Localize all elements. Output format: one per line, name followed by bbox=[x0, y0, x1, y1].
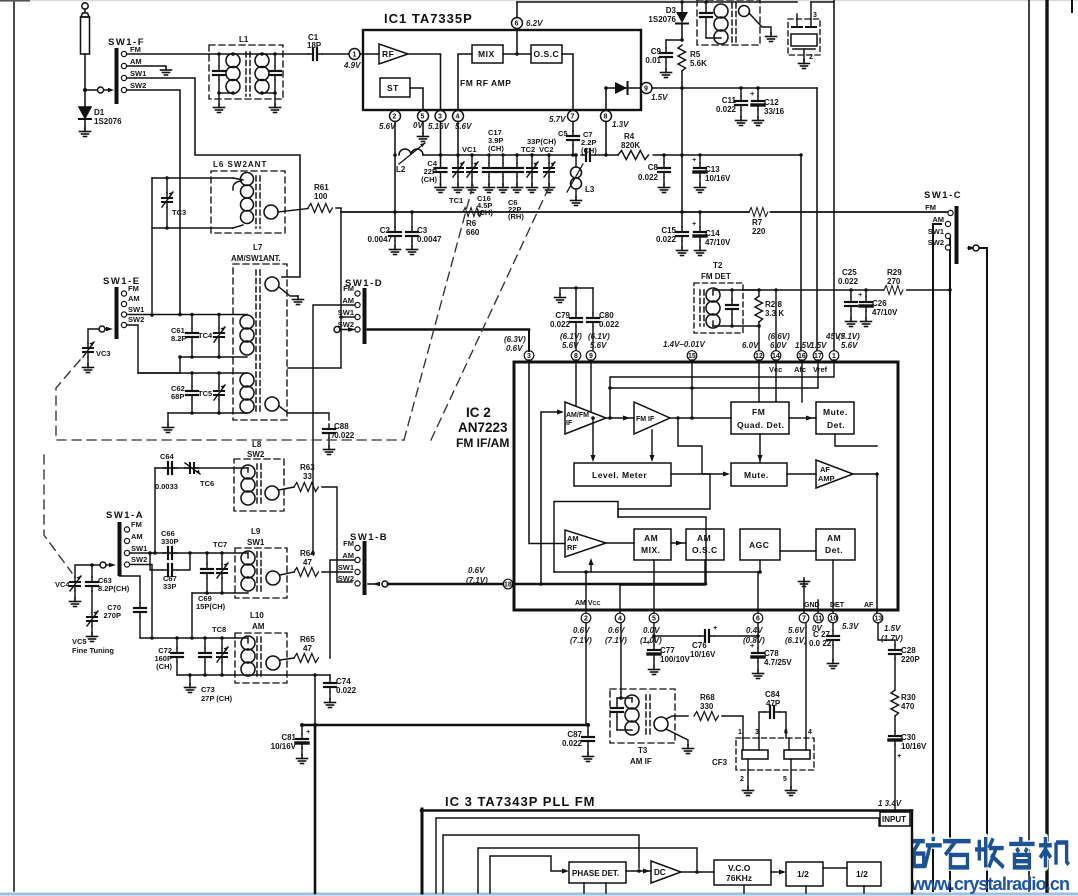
coil T3 primary bbox=[631, 698, 633, 702]
svg-text:14: 14 bbox=[772, 353, 780, 360]
coil L7 primary lower bbox=[240, 373, 254, 413]
wire AM RF to AM MIX bbox=[606, 542, 634, 544]
coil T2 bbox=[712, 290, 714, 295]
wire pin1 to RF bbox=[360, 53, 379, 55]
crystal filter (top right) bbox=[788, 19, 820, 55]
amp FM IF bbox=[634, 402, 670, 434]
svg-text:SW1: SW1 bbox=[131, 544, 147, 553]
capacitor C80 0.022 bbox=[592, 288, 594, 313]
capacitor C7 2.2P(CH) bbox=[581, 149, 595, 161]
svg-text:1 3.4V: 1 3.4V bbox=[878, 799, 902, 808]
wire R61 to rail bbox=[288, 208, 341, 368]
wire vertical to IC2 pin17 bbox=[816, 88, 818, 350]
svg-text:AM: AM bbox=[252, 622, 265, 631]
wire pin1 rail bbox=[610, 360, 834, 418]
svg-text:RF: RF bbox=[567, 543, 577, 552]
svg-text:(1.7V): (1.7V) bbox=[881, 634, 903, 643]
svg-text:1/2: 1/2 bbox=[856, 869, 868, 879]
svg-text:L10: L10 bbox=[250, 611, 264, 620]
svg-text:1.5V: 1.5V bbox=[810, 341, 827, 350]
svg-text:VC1: VC1 bbox=[462, 145, 477, 154]
svg-text:(RH): (RH) bbox=[508, 212, 524, 221]
svg-text:Det.: Det. bbox=[825, 545, 843, 555]
capacitor C11 0.022 bbox=[740, 88, 742, 96]
svg-text:VC4: VC4 bbox=[55, 580, 70, 589]
capacitor C6 22P(RH) bbox=[516, 155, 518, 163]
wiper SW1-A bbox=[100, 562, 106, 568]
svg-text:FM: FM bbox=[131, 520, 142, 529]
pin 17 circle bbox=[813, 351, 823, 361]
svg-text:C77: C77 bbox=[660, 646, 675, 655]
svg-text:Mute.: Mute. bbox=[744, 470, 769, 480]
capacitor C63 8.2P(CH) bbox=[91, 565, 93, 577]
wire OSC to pin7 bbox=[562, 54, 573, 110]
wire IC3 nested feedback lines bbox=[436, 818, 879, 893]
svg-text:47/10V: 47/10V bbox=[872, 308, 898, 317]
trimmer TC8 bbox=[221, 638, 223, 648]
pin 6 of IC1 bbox=[516, 29, 518, 55]
wiper SW1-C bbox=[968, 246, 976, 250]
coil L9 bbox=[247, 553, 249, 558]
svg-text:TC8: TC8 bbox=[212, 625, 226, 634]
svg-text:5.6V: 5.6V bbox=[562, 341, 579, 350]
diode D3 1S2076 bbox=[680, 0, 684, 4]
wire SW1 band down-left web bbox=[127, 78, 300, 277]
svg-text:10/16V: 10/16V bbox=[901, 742, 927, 751]
wire AM/FM IF to FM IF bbox=[606, 417, 634, 419]
wire AGC to AM Det bbox=[780, 550, 816, 552]
resistor R30 470 bbox=[891, 690, 899, 716]
pin 9 of IC1 bbox=[641, 83, 652, 94]
trimmer TC4 bbox=[218, 315, 220, 329]
svg-text:DC: DC bbox=[654, 868, 666, 877]
svg-text:SW1-B: SW1-B bbox=[350, 532, 388, 543]
wire L9 bottom row bbox=[192, 592, 248, 594]
svg-text:SW2: SW2 bbox=[928, 238, 944, 247]
svg-text:1.4V–0.01V: 1.4V–0.01V bbox=[663, 340, 705, 349]
pin 14 circle bbox=[771, 351, 781, 361]
svg-text:0.0047: 0.0047 bbox=[417, 235, 442, 244]
svg-text:330: 330 bbox=[700, 702, 714, 711]
block Level Meter bbox=[574, 463, 671, 486]
svg-text:(CH): (CH) bbox=[488, 144, 504, 153]
pin 5 circle bbox=[649, 613, 659, 623]
svg-text:IF: IF bbox=[566, 420, 573, 427]
trimmer TC6 bbox=[185, 463, 200, 474]
svg-text:AM: AM bbox=[827, 533, 841, 543]
svg-text:TC1: TC1 bbox=[449, 196, 463, 205]
svg-text:AF: AF bbox=[864, 602, 874, 609]
svg-text:FM: FM bbox=[130, 45, 141, 54]
core L10 bbox=[256, 637, 258, 679]
ground on AM stub bbox=[161, 67, 172, 76]
capacitor T3 bbox=[616, 698, 618, 703]
svg-text:+: + bbox=[692, 219, 697, 228]
pin 3 circle bbox=[524, 351, 534, 361]
wire RF out to pin3 bbox=[408, 54, 441, 110]
capacitor C16 4.5P(CH) bbox=[488, 155, 490, 163]
svg-text:SW1: SW1 bbox=[338, 563, 354, 572]
svg-text:270: 270 bbox=[887, 277, 901, 286]
block FM Quad Det bbox=[731, 402, 789, 434]
svg-text:660: 660 bbox=[466, 228, 480, 237]
wire pin9 output bbox=[652, 87, 817, 89]
svg-text:+: + bbox=[897, 751, 902, 760]
block Mute bbox=[731, 463, 787, 486]
svg-text:C88: C88 bbox=[334, 422, 349, 431]
pin 1 circle bbox=[829, 351, 839, 361]
svg-text:3: 3 bbox=[813, 12, 817, 19]
svg-text:270P: 270P bbox=[103, 611, 121, 620]
wire ST to pin5 bbox=[410, 88, 423, 110]
pin 10 circle bbox=[828, 613, 838, 623]
wire SW1 row of SW1-A bbox=[130, 552, 248, 554]
wire tuning rail y155 bbox=[423, 154, 573, 156]
capacitor C88 0.022 bbox=[323, 424, 335, 438]
diode internal to pin9 bbox=[604, 86, 608, 90]
wire pin10 up to AM Det bbox=[832, 560, 834, 614]
svg-text:0.4V: 0.4V bbox=[746, 626, 763, 635]
svg-text:Afc: Afc bbox=[794, 365, 806, 374]
svg-text:D1: D1 bbox=[94, 108, 105, 117]
capacitor C15 0.022 bbox=[676, 227, 688, 241]
svg-text:AM/FM: AM/FM bbox=[566, 412, 589, 419]
svg-text:0.022: 0.022 bbox=[599, 320, 620, 329]
svg-text:RF: RF bbox=[382, 49, 394, 59]
svg-text:Fine Tuning: Fine Tuning bbox=[72, 646, 114, 655]
transformer L1 bbox=[209, 45, 283, 99]
pin 8 of IC1 bbox=[601, 111, 612, 122]
svg-text:L3: L3 bbox=[585, 185, 595, 194]
capacitor C5 33P(CH) on pin7 bbox=[572, 122, 574, 132]
svg-text:15: 15 bbox=[688, 353, 696, 360]
svg-text:4.9V: 4.9V bbox=[343, 61, 361, 70]
svg-text:+: + bbox=[306, 727, 311, 736]
svg-text:(6.1V): (6.1V) bbox=[785, 636, 807, 645]
pin 1 of IC1 bbox=[349, 49, 360, 60]
coil L1 primary bbox=[232, 54, 234, 55]
block VCO 76KHz bbox=[714, 860, 771, 885]
svg-text:INPUT: INPUT bbox=[882, 815, 906, 824]
inductor L2 (variable) bbox=[399, 149, 423, 155]
capacitor C69 15P(CH) bbox=[206, 553, 208, 564]
svg-text:AMP: AMP bbox=[818, 474, 835, 483]
svg-text:820K: 820K bbox=[621, 141, 640, 150]
right vertical line x1029 bbox=[1028, 0, 1030, 891]
svg-text:VC5: VC5 bbox=[72, 637, 87, 646]
svg-text:R68: R68 bbox=[700, 693, 715, 702]
svg-text:O.S.C: O.S.C bbox=[534, 49, 560, 59]
wire R68 to CF3 bbox=[722, 716, 743, 738]
svg-text:C2: C2 bbox=[380, 226, 391, 235]
wire SW2 drop from SW1-E bbox=[127, 325, 180, 373]
gang dashed linkage lines bbox=[44, 185, 550, 573]
svg-text:(6.1V): (6.1V) bbox=[560, 332, 582, 341]
capacitor C12 33/16 bbox=[757, 88, 759, 96]
capacitor C9 0.01 bbox=[665, 40, 667, 48]
svg-text:17: 17 bbox=[814, 353, 822, 360]
svg-text:IC 2: IC 2 bbox=[466, 405, 491, 420]
wiper SW1-E bbox=[99, 326, 105, 332]
svg-text:L7: L7 bbox=[253, 243, 263, 252]
svg-text:(5.1V): (5.1V) bbox=[838, 332, 860, 341]
block PHASE DET bbox=[569, 862, 626, 883]
block AM OSC bbox=[686, 529, 724, 560]
wire C64 row bbox=[155, 467, 248, 469]
svg-text:SW1: SW1 bbox=[128, 305, 144, 314]
svg-text:0.0047: 0.0047 bbox=[368, 235, 393, 244]
trimmer TC3 bbox=[166, 178, 168, 193]
coil T3 secondary loop bbox=[654, 717, 668, 731]
svg-text:0.022: 0.022 bbox=[562, 739, 583, 748]
amp AM RF bbox=[565, 530, 606, 557]
svg-text:18: 18 bbox=[504, 582, 512, 589]
svg-text:TC5: TC5 bbox=[198, 389, 212, 398]
pin 8 circle bbox=[571, 351, 581, 361]
ground under D1 bbox=[80, 128, 91, 137]
wire L1 bottoms bbox=[219, 92, 233, 94]
resistor R64 47 bbox=[294, 568, 318, 577]
svg-text:C79: C79 bbox=[555, 311, 570, 320]
wire pin14 stub bbox=[775, 360, 777, 402]
trimmer VC5 fine tuning bbox=[87, 611, 98, 626]
resistor R61 100 bbox=[308, 204, 332, 213]
svg-text:0.01: 0.01 bbox=[645, 56, 661, 65]
svg-text:33P: 33P bbox=[163, 582, 176, 591]
svg-text:FM: FM bbox=[752, 407, 765, 417]
svg-text:TC7: TC7 bbox=[213, 540, 227, 549]
wiper SW1-B thick wire to pin18 bbox=[382, 581, 388, 587]
svg-text:C14: C14 bbox=[705, 229, 720, 238]
svg-text:3: 3 bbox=[438, 114, 442, 121]
svg-text:10/16V: 10/16V bbox=[705, 174, 731, 183]
svg-text:6.2V: 6.2V bbox=[526, 19, 543, 28]
diode D1 1S2076 bbox=[79, 90, 91, 128]
svg-text:Quad. Det.: Quad. Det. bbox=[737, 420, 785, 430]
ground L10 bottom bbox=[189, 675, 191, 684]
svg-text:9: 9 bbox=[644, 86, 648, 93]
trimmer TC5 bbox=[218, 373, 220, 386]
pin 18 circle bbox=[503, 579, 513, 589]
wire vertical to IC2 pin1 bbox=[833, 0, 835, 350]
svg-text:1: 1 bbox=[832, 353, 836, 360]
wire pin2 up bbox=[585, 572, 587, 614]
coil L10 bbox=[247, 638, 249, 643]
svg-text:10: 10 bbox=[830, 616, 838, 623]
svg-text:1: 1 bbox=[353, 52, 357, 59]
block divider 1/2 bbox=[786, 862, 823, 886]
svg-text:100/10V: 100/10V bbox=[660, 655, 690, 664]
svg-text:VC2: VC2 bbox=[539, 145, 554, 154]
svg-text:L8: L8 bbox=[252, 440, 262, 449]
svg-text:2: 2 bbox=[393, 114, 397, 121]
svg-text:2: 2 bbox=[740, 776, 744, 783]
capacitor C67 33P parallel bbox=[150, 553, 163, 570]
capacitor C3 0.0047 bbox=[411, 212, 413, 227]
svg-text:76KHz: 76KHz bbox=[726, 873, 752, 883]
svg-text:12: 12 bbox=[755, 353, 763, 360]
svg-text:4: 4 bbox=[456, 114, 460, 121]
svg-text:DET: DET bbox=[830, 602, 845, 609]
svg-text:13: 13 bbox=[875, 616, 883, 623]
svg-text:4.7/25V: 4.7/25V bbox=[764, 658, 792, 667]
svg-text:3.3 K: 3.3 K bbox=[765, 309, 784, 318]
svg-text:1.3V: 1.3V bbox=[612, 120, 629, 129]
svg-text:(7.1V): (7.1V) bbox=[605, 636, 627, 645]
svg-text:6: 6 bbox=[784, 729, 788, 736]
coil L7 primary upper bbox=[240, 315, 254, 355]
node dots L1 top bbox=[217, 52, 221, 56]
pin 3 of IC1 bbox=[435, 111, 446, 122]
resistor R5 5.6K bbox=[678, 45, 686, 71]
capacitor C62 68P bbox=[191, 373, 193, 386]
svg-text:5: 5 bbox=[652, 616, 656, 623]
svg-text:FM IF: FM IF bbox=[636, 416, 655, 423]
core L7 bbox=[255, 270, 257, 414]
resistor R65 47 bbox=[294, 654, 318, 663]
svg-text:AM: AM bbox=[932, 215, 944, 224]
svg-text:+: + bbox=[750, 641, 755, 650]
svg-text:C13: C13 bbox=[705, 165, 720, 174]
core T3 bbox=[645, 695, 647, 737]
svg-text:AM: AM bbox=[130, 57, 142, 66]
ground T1 secondary bbox=[766, 33, 777, 42]
capacitor C26 47/10V bbox=[865, 290, 867, 297]
svg-text:33P(CH): 33P(CH) bbox=[527, 137, 557, 146]
svg-text:3: 3 bbox=[527, 353, 531, 360]
block divider2 1/2 bbox=[847, 862, 881, 886]
svg-text:100: 100 bbox=[314, 192, 328, 201]
coil L8 secondary loop bbox=[265, 486, 279, 500]
pin 7 of IC1 bbox=[568, 111, 579, 122]
wire pin9 stub bbox=[590, 360, 592, 412]
ground bottom row bbox=[167, 413, 169, 424]
block OSC bbox=[531, 45, 562, 63]
resistor R4 820K bbox=[618, 151, 649, 160]
svg-text:+: + bbox=[750, 89, 755, 98]
wire pin4 of IC2 down to T3 bbox=[620, 623, 622, 692]
wire SW2 band down bbox=[127, 90, 180, 315]
svg-text:AGC: AGC bbox=[749, 540, 769, 550]
wire AM MIX to AM OSC bbox=[671, 542, 686, 544]
svg-text:C76: C76 bbox=[692, 641, 707, 650]
resistor R63 33 bbox=[294, 483, 318, 492]
wire FM band (SW1-F to C1) bbox=[127, 53, 309, 55]
svg-text:470: 470 bbox=[901, 702, 915, 711]
svg-text:3: 3 bbox=[755, 729, 759, 736]
svg-text:R2 8: R2 8 bbox=[765, 300, 782, 309]
svg-text:AM: AM bbox=[128, 294, 140, 303]
trimmer TC2 bbox=[531, 155, 533, 163]
wire pin16 stub bbox=[801, 360, 803, 402]
bottom blue rule bbox=[0, 893, 1078, 896]
wire left drop to SW1-E bbox=[151, 178, 153, 315]
antenna bbox=[81, 3, 90, 90]
capacitor C81 10/16V bbox=[301, 725, 303, 734]
svg-text:0.0V: 0.0V bbox=[643, 626, 660, 635]
svg-text:33/16: 33/16 bbox=[764, 107, 785, 116]
svg-text:C3: C3 bbox=[417, 226, 428, 235]
svg-text:Level. Meter: Level. Meter bbox=[592, 470, 647, 480]
svg-text:1S2076: 1S2076 bbox=[648, 15, 676, 24]
wire SW2 contact SW1-A down bbox=[130, 565, 152, 639]
wire FM det out y290 bbox=[743, 289, 950, 291]
wire MIX to OSC bbox=[503, 53, 531, 55]
svg-text:(6.1V): (6.1V) bbox=[588, 332, 610, 341]
svg-text:AM/SW1ANT.: AM/SW1ANT. bbox=[231, 254, 281, 263]
transformer T3 AM IF bbox=[610, 689, 675, 743]
wire DC to VCO bbox=[681, 871, 714, 873]
svg-text:AM: AM bbox=[342, 296, 354, 305]
svg-text:6.0V: 6.0V bbox=[742, 341, 759, 350]
capacitor C4 22P(CH) bbox=[440, 122, 442, 164]
block ST bbox=[380, 78, 410, 97]
amp DC bbox=[651, 861, 681, 883]
svg-text:AM: AM bbox=[131, 532, 143, 541]
wire pin4 to MIX bbox=[458, 54, 472, 110]
svg-text:www.crystalradio.cn: www.crystalradio.cn bbox=[910, 874, 1070, 894]
svg-text:Mute.: Mute. bbox=[823, 407, 848, 417]
coil T1 secondary loop bbox=[739, 6, 750, 17]
block Mute Det bbox=[816, 402, 854, 434]
svg-text:0.022: 0.022 bbox=[336, 686, 357, 695]
svg-text:C12: C12 bbox=[764, 98, 779, 107]
wire AF out to pin13 bbox=[853, 474, 877, 613]
svg-text:+: + bbox=[858, 290, 863, 299]
coil L8 bbox=[247, 468, 249, 472]
capacitor C30 10/16V bbox=[889, 731, 901, 745]
pin 12 circle bbox=[754, 351, 764, 361]
svg-text:O.S.C: O.S.C bbox=[692, 545, 718, 555]
ground T3 secondary bbox=[683, 745, 694, 754]
wire AM OSC bottom bbox=[620, 560, 705, 585]
svg-text:AN7223: AN7223 bbox=[458, 420, 508, 435]
wire divider to divider bbox=[823, 867, 847, 869]
coil T1 primary bbox=[714, 4, 728, 44]
wire pin2 of IC2 down bbox=[585, 623, 587, 725]
wire AM contact SW1-D bbox=[313, 305, 355, 553]
core T1 bbox=[731, 3, 733, 42]
capacitor C25 0.022 bbox=[850, 290, 852, 297]
svg-text:AM VCC: AM VCC bbox=[575, 600, 600, 607]
svg-text:6: 6 bbox=[515, 21, 519, 28]
capacitor C72 160P(CH) bbox=[176, 638, 178, 648]
right vertical net x987 bbox=[979, 248, 987, 891]
capacitor C27 0.022 bbox=[832, 623, 834, 631]
coil L6 bbox=[241, 173, 254, 224]
wire L10 top row bbox=[140, 637, 248, 639]
capacitor T1 bbox=[705, 2, 707, 8]
svg-text:5.6V: 5.6V bbox=[788, 626, 805, 635]
wire T2 bottom to pin12 bbox=[758, 326, 760, 350]
svg-text:T2: T2 bbox=[713, 261, 723, 270]
pin 9 circle bbox=[586, 351, 596, 361]
element CF3 left bbox=[742, 750, 768, 759]
coil L1 secondary bbox=[255, 54, 269, 94]
svg-text:AM: AM bbox=[342, 551, 354, 560]
capacitor T2 bbox=[731, 290, 733, 300]
svg-text:IC1 TA7335P: IC1 TA7335P bbox=[384, 11, 473, 26]
capacitor C77 100/10V bbox=[653, 623, 655, 645]
wire pin2 down bbox=[394, 122, 396, 228]
core L1 bbox=[245, 52, 247, 96]
pin 6 circle bbox=[753, 613, 763, 623]
svg-text:C9: C9 bbox=[651, 47, 662, 56]
svg-text:SW2: SW2 bbox=[247, 450, 265, 459]
svg-text:CF3: CF3 bbox=[712, 758, 728, 767]
svg-text:L1: L1 bbox=[239, 35, 249, 44]
svg-text:(6.6V): (6.6V) bbox=[768, 332, 790, 341]
